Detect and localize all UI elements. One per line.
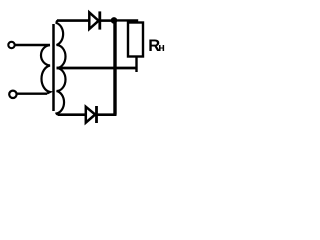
- transformer T primary winding: [41, 45, 50, 94]
- diode VD2: [86, 106, 97, 123]
- resistor Rн body: [128, 23, 143, 57]
- node junction dot: [111, 17, 118, 24]
- wire secondary top to diode VD1: [57, 19, 90, 22]
- transformer core: [52, 24, 55, 111]
- wire center tap to resistor bottom: [57, 67, 138, 70]
- svg-text:н: н: [158, 42, 165, 54]
- diode VD1: [89, 11, 100, 29]
- transformer T secondary winding: [57, 21, 66, 115]
- wire node to resistor top: [114, 20, 137, 23]
- wire input top: [15, 44, 50, 46]
- wire resistor bottom lead: [135, 56, 137, 72]
- wire VD1 cathode to node: [100, 19, 114, 22]
- wire cathode bus vertical: [113, 20, 116, 114]
- wire VD2 cathode to bus: [97, 113, 117, 116]
- terminal input bottom: [9, 91, 16, 98]
- wire secondary bottom to diode VD2: [58, 113, 86, 116]
- terminal input top: [8, 42, 14, 48]
- wire input bottom: [17, 92, 47, 94]
